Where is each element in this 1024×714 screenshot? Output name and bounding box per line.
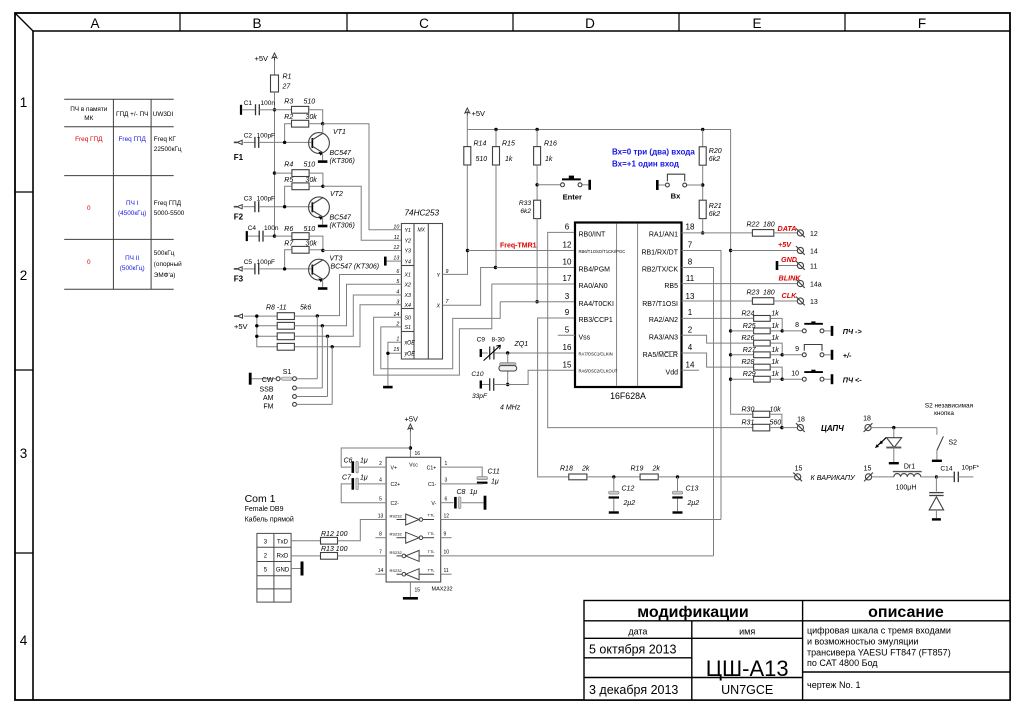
connector pin 15 remote [865, 474, 871, 480]
connector pin 13 CLK [797, 298, 803, 304]
svg-text:BC547: BC547 [330, 150, 353, 157]
svg-text:C4: C4 [248, 225, 257, 232]
svg-text:RA6/OSC2/CLKOUT: RA6/OSC2/CLKOUT [579, 369, 618, 374]
svg-text:10: 10 [791, 370, 799, 377]
svg-text:3 декабря 2013: 3 декабря 2013 [589, 683, 678, 697]
svg-text:11: 11 [810, 264, 817, 271]
wire RA1 to R22 [682, 232, 753, 234]
wire RA2 to R24 [682, 317, 754, 319]
svg-text:180: 180 [763, 222, 775, 229]
svg-text:4: 4 [20, 633, 28, 648]
svg-text:11: 11 [444, 568, 449, 574]
svg-text:по CAT 4800 Бод: по CAT 4800 Бод [807, 658, 878, 668]
svg-text:1k: 1k [771, 347, 779, 354]
svg-text:VT3: VT3 [330, 256, 343, 263]
svg-text:13: 13 [378, 513, 384, 519]
resistor R19 2k [640, 474, 658, 480]
resistor R24 1k [754, 316, 771, 322]
node VT3 base junction [283, 267, 286, 270]
svg-text:Y: Y [437, 273, 441, 279]
svg-text:и возможностью эмуляции: и возможностью эмуляции [807, 637, 918, 647]
IC U1 74HC253 body [401, 224, 442, 360]
svg-text:Freq-TMR1: Freq-TMR1 [500, 242, 537, 249]
svg-text:74HC253: 74HC253 [405, 209, 440, 218]
wire RB5 BLINK to connector [682, 283, 798, 285]
connector pin 15 varicap out [795, 474, 801, 480]
svg-text:R27: R27 [743, 347, 757, 354]
svg-text:12: 12 [810, 231, 818, 238]
wire R10 node to S1 AM contact [327, 336, 329, 396]
wire VT1 collector to 74HC253 Y1 [322, 124, 324, 134]
wire S1 to RA4 net [381, 302, 500, 369]
node A junction R1/C1/R3 [273, 108, 276, 111]
svg-text:14: 14 [378, 568, 384, 574]
svg-text:RS232: RS232 [390, 532, 403, 537]
resistor R4 510 [275, 172, 292, 174]
capacitor C12 2u2 [613, 477, 615, 491]
resistor R13 100 [291, 555, 320, 557]
svg-text:MAX232: MAX232 [432, 587, 453, 593]
svg-text:F3: F3 [234, 275, 244, 284]
resistor R25 1k [754, 328, 771, 334]
svg-text:(4500кГц): (4500кГц) [118, 210, 146, 217]
svg-text:8: 8 [795, 322, 799, 329]
svg-text:BC547 (KT306): BC547 (KT306) [331, 264, 380, 271]
connector pin 14a BLINK [797, 281, 803, 287]
IC U3 MAX232 body [386, 457, 441, 582]
resistor R28 1k [754, 364, 771, 370]
svg-text:описание: описание [868, 604, 944, 621]
svg-text:D: D [585, 16, 595, 31]
switch S1 SSB contact [293, 386, 297, 390]
svg-text:R23: R23 [747, 290, 760, 297]
svg-text:R14: R14 [474, 141, 487, 148]
IC U2 PIC16F628A body [575, 223, 682, 388]
switch S2 [936, 428, 938, 435]
svg-text:15: 15 [415, 588, 421, 594]
svg-text:Dr1: Dr1 [904, 463, 915, 470]
svg-text:2μ2: 2μ2 [687, 500, 700, 507]
node R6 bias junction [273, 234, 276, 237]
svg-text:ПЧ ->: ПЧ -> [843, 327, 863, 336]
svg-text:VT2: VT2 [330, 191, 343, 198]
svg-text:+5V: +5V [254, 54, 268, 63]
svg-text:2: 2 [688, 325, 693, 334]
transistor VT3 BC547 [309, 259, 330, 282]
svg-text:R26: R26 [742, 335, 755, 342]
wire X4 input from R11 [332, 305, 401, 347]
svg-text:Vdd: Vdd [666, 369, 679, 376]
svg-text:RB6/T1OSO/T1CKI/PGC: RB6/T1OSO/T1CKI/PGC [579, 249, 626, 254]
svg-text:дата: дата [628, 627, 647, 637]
svg-text:TTL: TTL [428, 513, 436, 518]
svg-text:x̅O̅E̅: x̅O̅E̅ [404, 340, 416, 347]
svg-text:R3: R3 [284, 98, 293, 105]
svg-text:5: 5 [565, 325, 570, 334]
svg-text:X: X [436, 304, 441, 310]
svg-text:RA1/AN1: RA1/AN1 [649, 232, 678, 239]
svg-text:A: A [90, 16, 99, 31]
input F2 arrow [234, 206, 237, 208]
svg-text:8: 8 [379, 532, 382, 538]
svg-text:Freq ГПД: Freq ГПД [154, 200, 182, 207]
svg-text:R19: R19 [631, 466, 644, 473]
wire RA3 to R26 [682, 335, 754, 343]
svg-text:(опорный: (опорный [154, 260, 182, 268]
svg-text:1: 1 [688, 308, 693, 317]
svg-text:+5V: +5V [472, 109, 486, 118]
wire R8 node to S1 CW contact [316, 316, 318, 379]
svg-text:R2: R2 [284, 114, 293, 121]
button ПЧ -&gt; [782, 330, 802, 332]
svg-text:10: 10 [393, 224, 399, 230]
svg-text:1μ: 1μ [491, 479, 499, 486]
svg-text:C10: C10 [471, 371, 483, 378]
LED Dr indicator [893, 428, 895, 438]
terminator GND stub [776, 261, 779, 270]
wire xOE to yOE [388, 342, 402, 353]
svg-text:Y2: Y2 [405, 239, 412, 245]
svg-text:100pF: 100pF [257, 133, 275, 140]
svg-text:9: 9 [444, 532, 447, 538]
power +5V MAX232 [408, 424, 413, 432]
node R4 bias junction [273, 171, 276, 174]
svg-text:R7: R7 [284, 240, 294, 247]
ground VT2 emitter [322, 217, 324, 225]
svg-text:R1: R1 [283, 74, 292, 81]
svg-text:13: 13 [686, 292, 695, 301]
svg-text:МК: МК [84, 115, 93, 122]
svg-text:R12 100: R12 100 [321, 531, 348, 538]
node VT1 base junction [283, 141, 286, 144]
svg-text:6k2: 6k2 [520, 208, 531, 215]
svg-text:+5V: +5V [405, 415, 419, 424]
svg-text:Bx: Bx [671, 191, 681, 200]
svg-text:1: 1 [445, 461, 448, 467]
transistor VT2 BC547 [309, 197, 330, 220]
svg-text:6: 6 [565, 223, 570, 232]
node Vcc junction [409, 446, 412, 449]
frame column dividers [179, 13, 181, 31]
svg-text:16: 16 [415, 451, 421, 457]
svg-text:E: E [752, 16, 761, 31]
svg-text:18: 18 [686, 223, 695, 232]
connector pin 18 CAPCH [782, 427, 797, 429]
svg-text:C1+: C1+ [427, 465, 437, 471]
svg-text:RS232: RS232 [390, 514, 403, 519]
svg-text:BC547: BC547 [330, 215, 353, 222]
svg-text:9: 9 [795, 346, 799, 353]
svg-text:R13 100: R13 100 [321, 546, 348, 553]
svg-text:UW3DI: UW3DI [153, 111, 174, 118]
wire +5V column to R30 [731, 251, 753, 415]
svg-text:C2: C2 [244, 133, 253, 140]
svg-text:V+: V+ [391, 465, 398, 471]
svg-text:S1: S1 [405, 325, 412, 331]
svg-text:180: 180 [763, 290, 775, 297]
svg-text:4 MHz: 4 MHz [500, 405, 521, 412]
input F1 arrow [234, 141, 237, 143]
svg-text:2: 2 [20, 268, 28, 283]
svg-text:30k: 30k [306, 177, 318, 184]
svg-text:C11: C11 [488, 469, 500, 476]
capacitor C8 1u [441, 502, 454, 504]
svg-text:R6: R6 [284, 226, 293, 233]
resistor R16 1k [536, 130, 538, 147]
PIC Vdd stub [682, 369, 700, 371]
terminator Y4 input [384, 257, 387, 266]
svg-text:ЭМФ'а): ЭМФ'а) [154, 272, 176, 279]
svg-text:12: 12 [393, 245, 399, 251]
svg-text:ПЧ в памяти: ПЧ в памяти [70, 106, 108, 113]
resistor R31 560 [753, 424, 770, 431]
svg-text:2k: 2k [652, 466, 661, 473]
svg-text:S2: S2 [949, 439, 958, 446]
DB9 connector Com1 table [257, 533, 291, 602]
svg-text:18: 18 [863, 416, 871, 423]
resistor R30 10k [753, 411, 770, 417]
svg-text:RA5/M̅C̅L̅R̅: RA5/M̅C̅L̅R̅ [643, 351, 679, 359]
svg-text:ZQ1: ZQ1 [514, 341, 529, 348]
svg-text:R28: R28 [742, 359, 755, 366]
svg-text:X3: X3 [404, 293, 412, 299]
button Enter [537, 184, 560, 186]
svg-text:C12: C12 [622, 485, 635, 492]
svg-text:C6: C6 [344, 458, 353, 465]
svg-text:1k: 1k [771, 323, 779, 330]
wire R11 output [294, 346, 332, 348]
svg-text:RxD: RxD [277, 553, 289, 559]
svg-text:R8 -11: R8 -11 [266, 305, 287, 312]
svg-text:33pF: 33pF [472, 393, 488, 400]
svg-text:5 октября 2013: 5 октября 2013 [589, 643, 677, 657]
svg-text:1k: 1k [771, 359, 779, 366]
wire RB0 to R31 CAPCH net [548, 232, 753, 427]
svg-text:RB5: RB5 [664, 283, 678, 290]
wire yOE to ground [388, 353, 402, 386]
capacitor C9 8-30 trimmer [480, 349, 482, 357]
svg-text:трансивера YAESU FT847 (FT857): трансивера YAESU FT847 (FT857) [807, 648, 951, 658]
svg-text:SSB: SSB [259, 386, 273, 393]
wire RA0 to PIC pin 17 [492, 283, 575, 285]
svg-text:C7: C7 [342, 474, 352, 481]
svg-text:5: 5 [379, 497, 382, 503]
svg-text:FM: FM [263, 403, 273, 410]
svg-text:30k: 30k [306, 240, 318, 247]
node VT2 collector junction [321, 185, 324, 188]
svg-text:TTL: TTL [428, 567, 436, 572]
wire R9 output [294, 325, 322, 327]
resistor R23 180 [752, 298, 773, 305]
svg-text:R31: R31 [742, 420, 755, 427]
capacitor C10 33pF [480, 381, 482, 389]
svg-text:6k2: 6k2 [709, 156, 720, 163]
resistor R27 1k [754, 352, 771, 358]
svg-text:Y1: Y1 [405, 228, 412, 234]
svg-text:R20: R20 [709, 148, 722, 155]
wire S0 to RA0 net [374, 284, 492, 375]
svg-text:UN7GCE: UN7GCE [721, 683, 773, 697]
svg-text:10: 10 [563, 258, 572, 267]
capacitor C11 1u [441, 467, 483, 477]
wire X3 input from R10 [328, 295, 402, 336]
svg-text:10pF*: 10pF* [962, 464, 980, 471]
inductor Dr1 100uH [872, 476, 894, 478]
svg-text:S0: S0 [405, 316, 412, 322]
svg-text:7: 7 [688, 241, 693, 250]
svg-text:R30: R30 [742, 407, 755, 414]
svg-text:(KT306): (KT306) [330, 158, 355, 165]
wire Y output to Freq-TMR1 net [443, 251, 468, 275]
svg-text:510: 510 [476, 156, 488, 163]
wire VT2 collector to 74HC253 Y2 [323, 186, 402, 240]
svg-text:CW: CW [262, 377, 274, 384]
svg-text:CLK: CLK [782, 291, 798, 300]
wire R9 node to S1 SSB contact [321, 326, 323, 388]
wire OSC1 net to PIC pin 16 [508, 352, 575, 354]
resistor R7 30k [292, 246, 309, 253]
svg-text:510: 510 [304, 226, 316, 233]
node button junction [781, 378, 784, 381]
svg-text:C1: C1 [244, 100, 253, 107]
svg-text:3: 3 [565, 292, 570, 301]
resistor R2 30k [292, 120, 309, 127]
svg-text:R16: R16 [544, 141, 557, 148]
node C13 junction [676, 475, 679, 478]
button ПЧ &lt;- [782, 378, 802, 380]
wire X2 input from R9 [322, 284, 401, 326]
resistor R14 510 [466, 130, 468, 147]
resistor R5 30k [292, 183, 309, 190]
capacitor C6 1u [341, 448, 410, 467]
varicap diode VD1 [935, 477, 937, 492]
svg-text:цифровая шкала с тремя входами: цифровая шкала с тремя входами [807, 626, 951, 636]
svg-text:R4: R4 [284, 162, 293, 169]
svg-text:+5V: +5V [778, 240, 792, 249]
svg-text:TTL: TTL [428, 549, 436, 554]
svg-text:1k: 1k [505, 156, 513, 163]
svg-text:Com 1: Com 1 [245, 493, 276, 505]
svg-text:4: 4 [688, 343, 693, 352]
svg-text:6: 6 [445, 497, 448, 503]
node varicap junction [935, 475, 938, 478]
resistor R15 1k [495, 130, 497, 147]
svg-text:1μ: 1μ [360, 458, 368, 465]
svg-text:C2-: C2- [391, 501, 400, 507]
svg-text:2μ2: 2μ2 [623, 500, 636, 507]
svg-text:Vcc: Vcc [409, 463, 418, 469]
svg-text:F1: F1 [234, 153, 244, 162]
svg-text:1: 1 [396, 337, 399, 343]
svg-text:RB2/TX/CK: RB2/TX/CK [642, 267, 679, 274]
power +5V main rail arrow [465, 108, 470, 116]
svg-text:Y3: Y3 [405, 249, 412, 255]
wire +5V rail [467, 130, 730, 251]
svg-text:MX: MX [418, 228, 426, 234]
node crystal bottom [506, 383, 509, 386]
svg-text:3: 3 [20, 446, 28, 461]
connector pin 12 DATA [797, 230, 803, 236]
wire R11 node to S1 FM contact [331, 347, 333, 405]
svg-text:X2: X2 [404, 283, 412, 289]
svg-text:ПЧ <-: ПЧ <- [843, 375, 862, 384]
svg-text:510: 510 [304, 98, 316, 105]
svg-text:13: 13 [810, 299, 818, 306]
power +5V for R8-11 [234, 315, 237, 317]
svg-text:100pF: 100pF [257, 196, 275, 203]
svg-text:y̅O̅E̅: y̅O̅E̅ [404, 351, 416, 358]
wire RB4 net to PIC pin 10 [496, 267, 576, 269]
node button junction [781, 329, 784, 332]
resistor R21 6k2 [699, 200, 706, 218]
svg-text:TxD: TxD [277, 539, 289, 545]
resistor R1 27 [271, 75, 279, 92]
wire MAX232 pin 12 to RB1 net [441, 519, 721, 521]
svg-text:RS232: RS232 [390, 550, 403, 555]
node VT3 collector junction [321, 249, 324, 252]
svg-text:2k: 2k [581, 466, 590, 473]
svg-text:VT1: VT1 [333, 129, 346, 136]
svg-text:R29: R29 [743, 371, 756, 378]
ground VT3 emitter [322, 279, 324, 287]
svg-text:ПЧ I: ПЧ I [126, 200, 139, 207]
svg-text:15: 15 [393, 347, 399, 353]
wire R8 output [294, 315, 317, 317]
svg-text:22500кГц: 22500кГц [154, 146, 182, 153]
svg-text:14: 14 [810, 249, 818, 256]
svg-text:8: 8 [688, 258, 693, 267]
svg-text:1: 1 [20, 95, 28, 110]
svg-text:16F628A: 16F628A [610, 391, 646, 401]
capacitor C7 1u [358, 483, 386, 485]
capacitor C14 10pF [936, 476, 954, 478]
PIC Vss stub [558, 334, 575, 336]
svg-text:X4: X4 [404, 303, 412, 309]
wire OSC2 net to PIC pin 15 [508, 370, 575, 384]
svg-text:чертеж No. 1: чертеж No. 1 [807, 680, 860, 690]
svg-text:R25: R25 [743, 323, 756, 330]
title block grid [584, 601, 1010, 701]
svg-text:5000-5500: 5000-5500 [154, 210, 185, 217]
resistor R26 1k [754, 340, 771, 346]
svg-text:C14: C14 [940, 465, 952, 472]
svg-text:RA2/AN2: RA2/AN2 [649, 317, 678, 324]
resistor R20 6k2 [702, 130, 704, 147]
svg-text:6k2: 6k2 [709, 211, 720, 218]
wire X1 input from R8 [317, 275, 401, 316]
svg-text:15: 15 [795, 466, 803, 473]
wire RA5 to R28 [682, 353, 754, 367]
node Enter button junction [535, 183, 538, 186]
svg-text:3: 3 [445, 478, 448, 484]
power +5V top of R1 [272, 53, 277, 61]
frame row dividers [15, 191, 33, 193]
MAX232 pin 11 stub [441, 573, 452, 575]
capacitor C5 100pF [244, 268, 255, 270]
svg-text:ГПД +/- ПЧ: ГПД +/- ПЧ [116, 111, 148, 118]
svg-text:Y4: Y4 [405, 259, 412, 265]
svg-text:11: 11 [394, 235, 400, 241]
svg-text:1k: 1k [771, 335, 779, 342]
svg-text:7: 7 [379, 550, 382, 556]
svg-text:R18: R18 [560, 466, 573, 473]
svg-text:R21: R21 [709, 203, 722, 210]
capacitor C13 2u2 [677, 477, 679, 491]
svg-text:RA3/AN3: RA3/AN3 [649, 334, 678, 341]
resistor R12 100 [291, 540, 320, 542]
svg-text:5k6: 5k6 [300, 305, 311, 312]
svg-text:Freq КГ: Freq КГ [154, 136, 177, 143]
